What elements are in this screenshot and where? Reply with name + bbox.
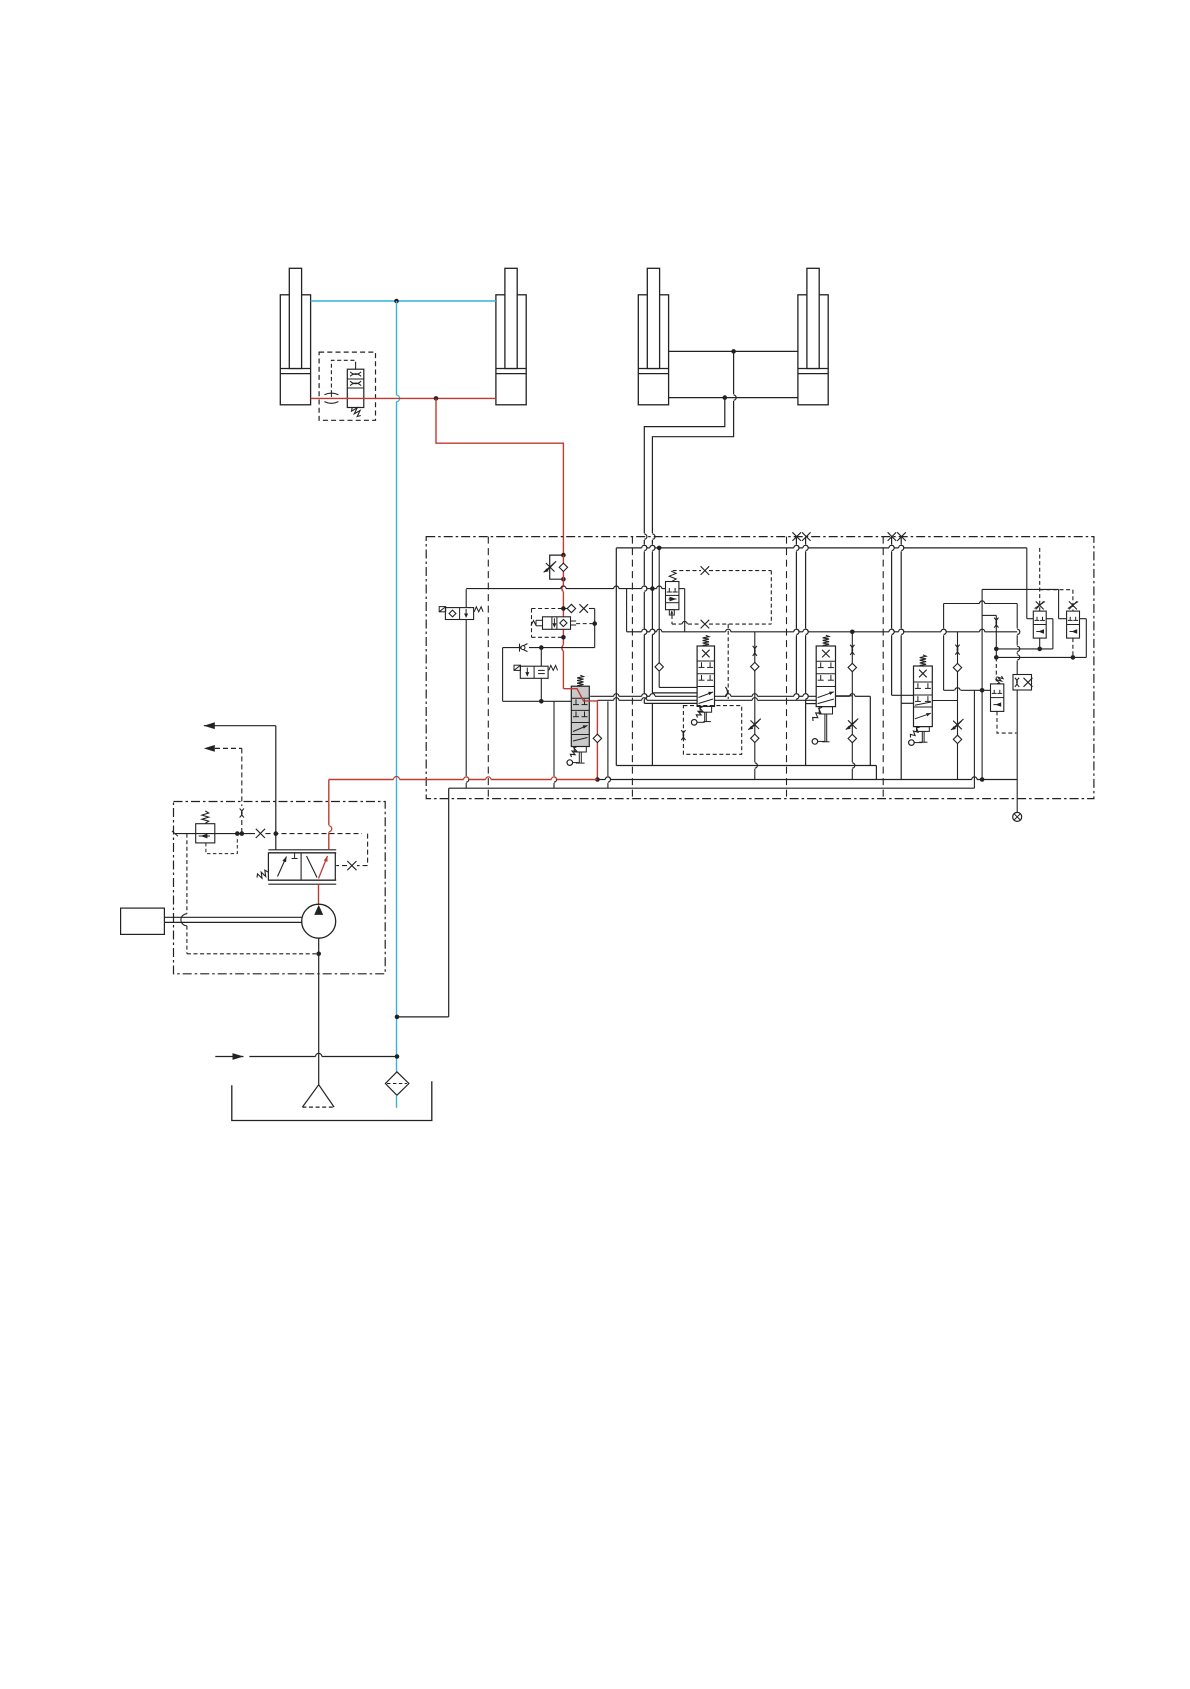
boundary double throttle checks section3 ports <box>888 532 906 541</box>
wire right header y=589 <box>982 589 1067 618</box>
arrow tank supply <box>215 1053 399 1060</box>
tank <box>232 1081 432 1120</box>
return filter <box>385 1072 409 1108</box>
section1 port relief valve RV1 <box>666 571 679 615</box>
solenoid valve SV1 <box>439 607 483 620</box>
wire tank gauge line to test point <box>1017 604 1020 813</box>
wire red head-end line CYL1-CYL2 <box>311 396 496 401</box>
wire steer cylinders head-end line <box>669 395 798 400</box>
wire section2 work line B <box>806 537 817 704</box>
arrow pilot dashed <box>204 745 244 836</box>
spool valve S2 <box>812 635 835 744</box>
wire cyan rod-end line CYL1-CYL2 <box>311 299 496 304</box>
wire bus B y=700.3 <box>597 698 816 701</box>
test point symbol <box>1013 812 1022 821</box>
pump unit dash-dot boundary <box>174 802 386 974</box>
wire drain return to tank <box>395 788 449 1019</box>
port relief valve RV-A <box>1033 601 1046 638</box>
unloader valve UV <box>991 676 1017 733</box>
section1 anti-cavitation check line <box>655 548 697 688</box>
manifold dashed section divider x=786 <box>786 537 788 799</box>
wire steer work line A down to valve block <box>644 398 725 635</box>
wire pump control line y=833.6 <box>172 829 368 870</box>
section1 meter line with checks <box>748 632 761 780</box>
inlet compensator spool (gray) <box>567 675 589 765</box>
wire inner frame left x=616 <box>615 548 617 766</box>
wire right feed from bus P <box>1027 548 1034 619</box>
wire pump suction <box>318 938 320 1084</box>
wire rail C y=788.2 (drain) <box>449 787 975 789</box>
wire bus tank y=632 <box>627 589 1018 632</box>
wire right drop x=974 <box>973 690 975 788</box>
wire section3 work line B <box>901 537 913 704</box>
counterbalance valve V1 body <box>347 365 364 416</box>
wire red line to inlet section <box>436 398 563 555</box>
wire load sense line y=589 <box>466 586 665 591</box>
wire red regulator feed <box>319 780 332 905</box>
spool valve S1 <box>691 635 714 725</box>
wire drain drop x=554 <box>554 701 557 788</box>
wire section1 tank drop to rail <box>651 703 653 765</box>
wire bus A y=696.3 <box>590 694 870 766</box>
pilot selector valve body <box>531 617 597 630</box>
wire section2 tank drop to rail <box>805 704 807 766</box>
spool valve S3 <box>909 655 933 745</box>
cylinder CYL3 (left steer) <box>638 268 668 405</box>
manifold dashed section divider x=488 <box>487 537 489 799</box>
counterbalance valve V1 dashed enclosure <box>319 352 375 420</box>
section1 pilot line dashed to spool <box>725 624 728 699</box>
cylinder CYL1 (left boom) <box>280 268 310 405</box>
wire RV-A piping <box>996 548 1053 651</box>
port relief valve RV-B <box>1067 601 1080 638</box>
cylinder CYL2 (right boom) <box>496 268 526 405</box>
pump regulator valve <box>257 850 336 884</box>
wire RV-B piping <box>996 590 1086 660</box>
wire red supply from regulator to manifold <box>329 777 598 780</box>
valve manifold dash-dot boundary <box>426 537 1094 799</box>
wire case drain dashed loop <box>181 834 321 957</box>
section1 dashed pilot enclosure <box>681 706 742 755</box>
check valve CV1 <box>503 644 595 652</box>
wire unloader port line y=690 <box>944 688 991 691</box>
wire section2 work line A <box>796 537 799 701</box>
manifold dashed section divider x=883 <box>882 537 884 799</box>
arrow outlet solid <box>204 722 276 729</box>
wire drain drop x=608 <box>608 701 611 788</box>
suction strainer <box>302 1085 334 1107</box>
wire steer cylinders rod-end line <box>669 349 798 354</box>
boundary double throttle checks section2 ports <box>792 532 810 541</box>
cylinder CYL4 (right steer) <box>798 268 828 405</box>
wire red supply down the inlet <box>559 555 567 689</box>
wire rail B y=779.5 (tank return) <box>597 777 1017 780</box>
hydraulic pump P1 <box>302 904 336 938</box>
wire section3 tank drop to rail <box>900 703 902 779</box>
orifice line to main relief <box>982 615 999 682</box>
wire rail A y=765.5 <box>616 766 876 780</box>
wire section3 work line A <box>892 537 914 696</box>
wire SV1 drain line down <box>466 589 469 788</box>
wire pump pressure riser <box>274 726 279 850</box>
wire RV1 right port to tank bus <box>679 589 685 632</box>
pump relief valve <box>196 811 238 854</box>
wire right drop x=982 <box>980 589 985 781</box>
wire bus P top y=548 <box>616 545 1027 550</box>
section1 dashed relief enclosure <box>672 566 771 628</box>
wire red path through compensator <box>563 689 601 782</box>
wire steer work line B down to valve block <box>652 351 736 588</box>
prime mover M <box>121 908 302 934</box>
section3 meter line with checks <box>932 632 963 780</box>
wire pilot return loop <box>503 648 572 704</box>
inlet flow control box on red line <box>544 553 566 582</box>
section2 meter line with checks <box>836 630 859 780</box>
wire cyan pilot line down to tank filter <box>397 301 400 1072</box>
manifold dashed section divider x=632 <box>631 537 633 799</box>
pilot orifice box <box>1013 675 1033 691</box>
wire SV2 vertical link <box>540 648 542 702</box>
solenoid valve SV2 <box>514 665 558 678</box>
wire steer line B to spool1 <box>652 589 697 693</box>
pilot selector dashed box <box>532 604 595 647</box>
wire steer line A to spool1 <box>644 634 697 703</box>
wire right header y=603 <box>944 601 1018 690</box>
